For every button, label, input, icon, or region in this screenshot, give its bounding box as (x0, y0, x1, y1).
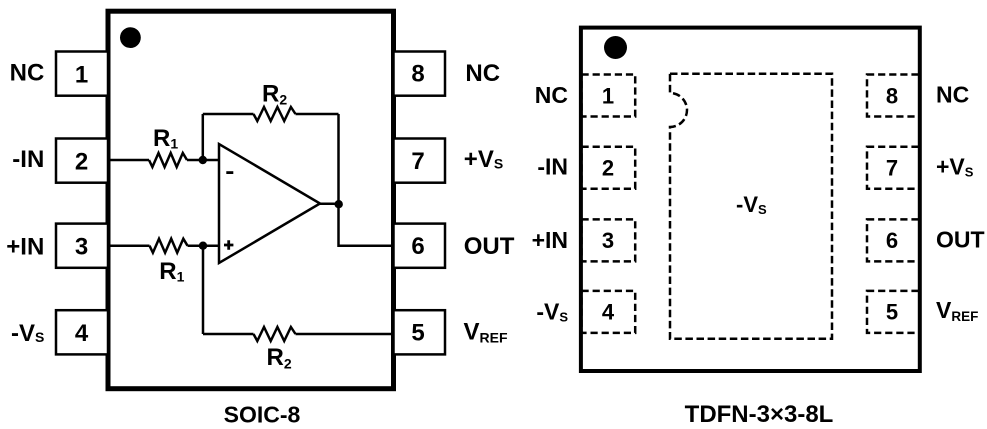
wire R2 bottom to pin 5 (296, 333, 394, 336)
op-amp plus sign (224, 240, 233, 249)
pin 6 pad (TDFN, dashed) (867, 219, 920, 261)
svg-text:TDFN-3×3-8L: TDFN-3×3-8L (685, 401, 834, 428)
pin 8 box (SOIC-8) (394, 52, 446, 96)
SOIC-8 package outline U1 (108, 11, 394, 389)
svg-text:7: 7 (886, 156, 898, 181)
svg-text:-IN: -IN (12, 146, 44, 173)
svg-text:2: 2 (75, 148, 88, 175)
wire feedback down to output node (337, 114, 340, 204)
pin 5 box (SOIC-8) (394, 310, 446, 354)
svg-text:4: 4 (75, 320, 89, 347)
svg-text:NC: NC (936, 81, 969, 107)
op-amp minus sign (226, 171, 233, 174)
resistor R1 (top, inverting input) (149, 153, 187, 167)
svg-text:1: 1 (602, 83, 614, 108)
svg-text:OUT: OUT (464, 233, 515, 260)
svg-text:+IN: +IN (6, 233, 44, 260)
wire bottom left segment (203, 333, 254, 336)
resistor R2 (bottom, reference) (254, 327, 296, 341)
pin 7 box (SOIC-8) (394, 139, 446, 183)
svg-text:NC: NC (465, 60, 500, 87)
svg-text:3: 3 (75, 233, 88, 260)
pin 1 marker dot (TDFN) (604, 36, 627, 59)
TDFN package outline U2 (581, 28, 920, 371)
pin 4 box (SOIC-8) (56, 310, 108, 354)
pin 3 box (SOIC-8) (56, 224, 108, 268)
svg-text:3: 3 (602, 228, 614, 253)
wire pin2 to R1 (108, 159, 149, 162)
svg-text:OUT: OUT (936, 226, 985, 252)
pin 2 box (SOIC-8) (56, 139, 108, 183)
resistor R1 (bottom, non-inverting input) (150, 239, 188, 253)
pin 7 pad (TDFN, dashed) (867, 147, 920, 189)
junction node output (335, 200, 343, 208)
svg-text:5: 5 (886, 300, 898, 325)
wire pin3 to R1 bottom (108, 244, 150, 247)
wire node A up to feedback (202, 114, 205, 160)
pin 4 pad (TDFN, dashed) (582, 291, 636, 333)
exposed pad -Vs (TDFN, dashed with notch) (670, 74, 832, 339)
svg-text:7: 7 (411, 148, 424, 175)
wire node B down (202, 246, 205, 334)
op-amp U1 triangle (219, 144, 320, 263)
svg-text:-IN: -IN (537, 154, 568, 180)
svg-text:6: 6 (411, 233, 424, 260)
pin 1 pad (TDFN, dashed) (582, 75, 636, 117)
pin 2 pad (TDFN, dashed) (582, 147, 636, 189)
svg-text:8: 8 (886, 83, 898, 108)
pin 8 pad (TDFN, dashed) (867, 75, 920, 117)
pin 6 box (SOIC-8) (394, 224, 446, 268)
wire feedback top left segment (203, 113, 254, 116)
svg-text:6: 6 (886, 228, 898, 253)
svg-text:5: 5 (411, 320, 424, 347)
wire R1 to op-amp inverting input (187, 159, 219, 162)
wire R1 bottom to op-amp non-inverting input (188, 244, 220, 247)
pin 1 marker dot (SOIC-8) (120, 27, 141, 48)
svg-text:SOIC-8: SOIC-8 (224, 401, 301, 427)
svg-text:+IN: +IN (532, 227, 568, 253)
wire output down and to pin 6 (339, 204, 394, 246)
pin 1 box (SOIC-8) (56, 52, 108, 96)
junction node A (inverting input) (199, 156, 207, 164)
pin 3 pad (TDFN, dashed) (582, 219, 636, 261)
svg-text:2: 2 (602, 156, 614, 181)
svg-text:NC: NC (535, 82, 568, 108)
wire op-amp output (320, 203, 339, 206)
resistor R2 (feedback, top) (254, 107, 296, 121)
svg-text:NC: NC (10, 59, 45, 86)
svg-text:8: 8 (411, 61, 424, 88)
svg-text:1: 1 (75, 61, 88, 88)
pin 5 pad (TDFN, dashed) (867, 291, 920, 333)
junction node B (non-inverting input) (199, 242, 207, 250)
wire feedback top right segment (296, 113, 339, 116)
svg-text:4: 4 (602, 300, 615, 325)
